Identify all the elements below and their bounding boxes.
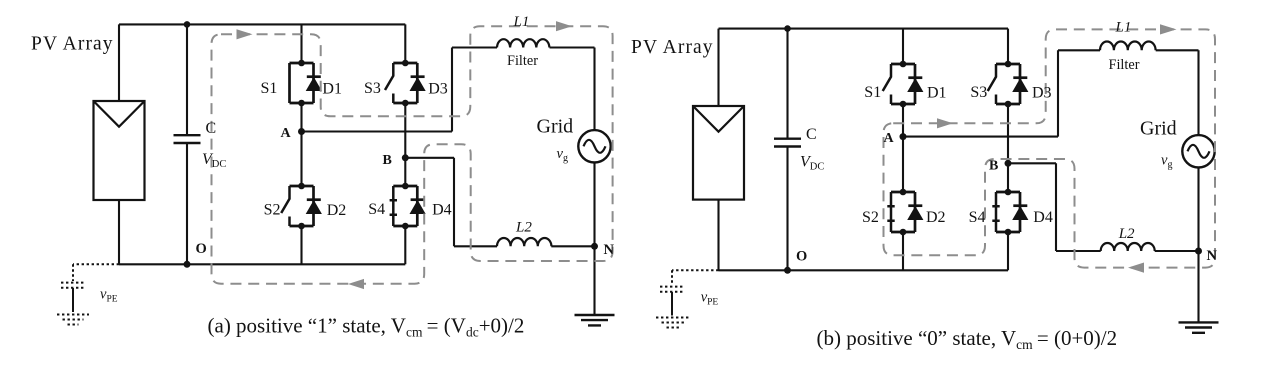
svg-text:Filter: Filter bbox=[1109, 57, 1140, 73]
svg-text:D1: D1 bbox=[927, 85, 947, 102]
svg-text:O: O bbox=[796, 249, 807, 265]
svg-text:B: B bbox=[383, 153, 392, 168]
svg-text:PV Array: PV Array bbox=[631, 37, 714, 58]
svg-text:B: B bbox=[989, 158, 998, 173]
svg-text:S4: S4 bbox=[969, 209, 986, 226]
svg-text:S2: S2 bbox=[264, 202, 281, 219]
svg-text:A: A bbox=[884, 131, 895, 146]
svg-text:C: C bbox=[806, 126, 817, 143]
svg-text:C: C bbox=[206, 120, 217, 137]
svg-text:D4: D4 bbox=[432, 202, 452, 219]
svg-text:S4: S4 bbox=[368, 201, 385, 218]
svg-text:S3: S3 bbox=[364, 80, 381, 97]
svg-text:D4: D4 bbox=[1033, 209, 1053, 226]
svg-text:D2: D2 bbox=[926, 209, 946, 226]
svg-text:S3: S3 bbox=[970, 84, 987, 101]
svg-text:S1: S1 bbox=[864, 84, 881, 101]
svg-text:L1: L1 bbox=[1115, 20, 1132, 36]
svg-text:L2: L2 bbox=[1118, 226, 1135, 242]
svg-text:A: A bbox=[281, 126, 292, 141]
svg-text:(b) positive “0” state, Vcm =: (b) positive “0” state, Vcm = (0+0)/2 bbox=[817, 326, 1118, 352]
svg-text:Grid: Grid bbox=[537, 115, 574, 137]
svg-text:Grid: Grid bbox=[1140, 118, 1177, 140]
svg-text:D3: D3 bbox=[1032, 85, 1052, 102]
svg-text:L1: L1 bbox=[513, 14, 530, 30]
svg-text:Filter: Filter bbox=[507, 53, 538, 69]
svg-text:O: O bbox=[196, 241, 207, 257]
svg-text:D3: D3 bbox=[428, 81, 448, 98]
svg-text:L2: L2 bbox=[515, 220, 532, 236]
svg-text:N: N bbox=[1207, 248, 1218, 264]
svg-text:S2: S2 bbox=[862, 209, 879, 226]
svg-text:PV Array: PV Array bbox=[31, 34, 114, 55]
svg-text:S1: S1 bbox=[261, 80, 278, 97]
svg-text:D1: D1 bbox=[322, 81, 342, 98]
svg-text:D2: D2 bbox=[327, 202, 347, 219]
svg-text:N: N bbox=[604, 242, 615, 258]
